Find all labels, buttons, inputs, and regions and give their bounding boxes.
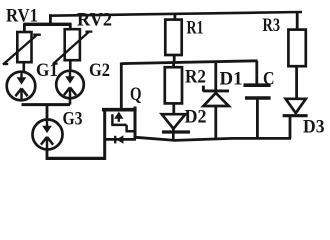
diode D3 triangle [286,99,306,113]
wire Q drain horizontal to R1/R2 junction and on to D1 and C [121,61,257,64]
svg-text:D1: D1 [220,70,243,90]
svg-text:G1: G1 [36,61,58,81]
transistor Q left source line [103,110,106,160]
wire RV2 top stub [69,24,72,30]
diode D2 triangle [162,114,186,129]
diode D3 cathode bar [283,114,308,117]
zener D1 triangle [203,93,228,106]
resistor R1 body [165,20,181,55]
svg-text:R2: R2 [185,68,206,88]
wire RV1 bottom stub [22,62,25,72]
transistor Q right drain-side vertical [134,107,137,139]
resistor R1 top stub [173,14,176,21]
wire source net horizontal [134,137,291,140]
wire RV1 top stub [23,24,26,33]
wire G3 top stub [46,105,49,120]
discharge tube G1 circle [7,72,36,101]
zener D1 cathode bar with bend [203,86,229,92]
svg-text:D2: D2 [185,108,207,128]
zener D1 bottom stub [214,106,217,138]
diode D3 bottom wire [289,116,292,139]
wire top bus [49,12,302,16]
wire G2 bottom stub [69,99,72,105]
discharge tube G2 circle [56,71,84,99]
resistor R3 bottom stub [295,66,298,99]
capacitor C bottom plate [245,96,271,100]
transistor Q arrow [114,112,123,122]
svg-text:G2: G2 [89,61,110,81]
varistor RV1 diagonal stroke [3,35,41,65]
resistor R2 body [165,67,182,103]
diode body D(Q) symbol [115,135,123,143]
varistor RV1 body [17,32,31,62]
svg-text:D3: D3 [303,118,325,138]
svg-text:C: C [263,70,275,90]
diode D2 bottom stub [172,129,175,142]
transistor Q channel U shape [111,114,136,131]
varistor RV2 body [65,29,80,60]
resistor R1 bottom stub [173,55,176,63]
wire Q drain vertical [120,63,123,109]
svg-text:RV2: RV2 [77,11,112,31]
wire vertical link top bus to varistor bus [49,14,52,25]
wire RV2 bottom stub [69,60,72,71]
resistor R3 top stub [296,12,299,31]
diode D2 cathode bar [162,130,190,133]
svg-text:G3: G3 [63,110,83,130]
discharge tube G3 circle [33,120,63,150]
varistor RV2 diagonal stroke [53,32,93,64]
discharge tube G1 arrows [15,73,27,101]
svg-text:R1: R1 [187,19,204,39]
resistor R2 bottom stub [172,103,175,114]
wire G3 bottom stub [46,149,49,159]
discharge tube G3 arrows [41,121,53,149]
svg-text:Q: Q [130,85,142,105]
capacitor C top stub [255,61,258,84]
zener D1 top stub [214,62,217,90]
svg-text:R3: R3 [263,16,281,36]
discharge tube G2 arrows [64,72,76,100]
diode body D(Q) wire [104,138,136,141]
resistor R3 body [288,30,305,67]
wire G1-G2 bottom bus [22,103,71,106]
wire varistor bus RV1-RV2 [23,23,71,26]
transistor Q top plate bar [102,108,137,112]
svg-text:RV1: RV1 [6,7,38,27]
capacitor C top plate [244,83,271,87]
resistor R2 top stub [172,62,175,67]
wire bottom ground rail [46,157,106,160]
capacitor C bottom stub [256,100,259,139]
